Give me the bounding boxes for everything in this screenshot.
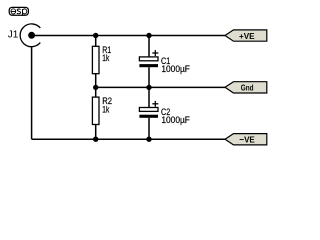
svg-text:1000µF: 1000µF [161, 63, 190, 74]
wire: C rail bottom segment [148, 118, 150, 139]
wire: R rail bottom segment [95, 125, 97, 140]
resistor R2 [92, 97, 99, 124]
capacitor C1 (polarised) [139, 57, 158, 67]
ESP logo [9, 7, 28, 15]
connector J1 (RCA jack: broken circle with centre pin) [20, 24, 40, 47]
junction dot bottom-R [93, 137, 98, 142]
svg-text:1000µF: 1000µF [161, 114, 190, 125]
junction dot mid-C [146, 85, 151, 90]
junction dot bottom-C [146, 137, 151, 142]
wire: top rail J1 to +VE [32, 35, 225, 37]
plus sign C2 [152, 101, 158, 107]
wire: R rail mid segment [95, 74, 97, 98]
terminal tag Gnd [225, 82, 267, 93]
wire: C rail top segment [148, 36, 150, 57]
junction dot mid-R [93, 85, 98, 90]
wire: bottom rail [32, 138, 225, 140]
junction dot top-C [146, 33, 151, 38]
svg-text:J1: J1 [8, 30, 19, 41]
wire: R rail top segment [95, 36, 97, 47]
terminal tag +VE [225, 30, 267, 41]
svg-text:+VE: +VE [239, 31, 255, 41]
junction dot top-R [93, 33, 98, 38]
wire: ground mid rail [96, 86, 225, 88]
svg-text:Gnd: Gnd [241, 83, 254, 93]
resistor R1 [92, 46, 99, 73]
svg-text:−VE: −VE [239, 134, 255, 144]
svg-text:1k: 1k [102, 52, 109, 63]
wire: C rail mid segment [148, 67, 150, 107]
plus sign C1 [152, 50, 158, 56]
terminal tag -VE [225, 134, 267, 145]
capacitor C2 (polarised) [139, 108, 158, 118]
svg-text:1k: 1k [102, 103, 109, 114]
wire: J1 shield drop [31, 46, 33, 139]
